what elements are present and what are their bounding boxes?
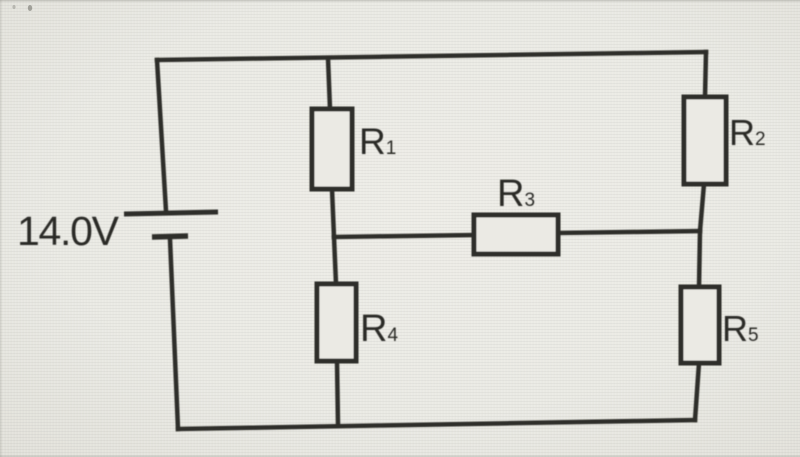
bottom photo edge xyxy=(0,456,800,457)
svg-text:14.0V: 14.0V xyxy=(17,208,120,254)
wire right: top corner to R2 xyxy=(705,52,706,97)
photo speck xyxy=(12,5,15,9)
resistor R5 xyxy=(681,287,719,363)
resistor R4 xyxy=(317,284,356,361)
wire left lower (battery to bottom) xyxy=(170,239,178,429)
wire left upper (to battery) xyxy=(157,60,166,211)
wire right: R2 to middle node xyxy=(700,184,704,231)
wire branch: R4 to bottom xyxy=(337,361,338,425)
wire branch: R1 to middle node xyxy=(332,189,334,237)
battery negative plate xyxy=(152,236,188,237)
photo speck xyxy=(28,5,32,11)
wire branch: middle node to R4 xyxy=(334,237,336,284)
wire top xyxy=(157,52,706,60)
wire middle right (R3 to right wire) xyxy=(558,231,700,233)
battery positive plate xyxy=(124,212,218,214)
resistor R3 xyxy=(474,215,558,254)
wire right: R5 to bottom corner xyxy=(695,363,699,420)
resistor R1 xyxy=(312,109,352,189)
left photo edge xyxy=(0,0,2,457)
top photo edge xyxy=(0,0,800,2)
wire branch: top to R1 xyxy=(328,58,330,109)
wire right: middle node to R5 xyxy=(699,231,700,287)
resistor R2 xyxy=(684,97,726,184)
wire middle left (node to R3) xyxy=(334,235,474,237)
wire bottom xyxy=(178,420,695,429)
